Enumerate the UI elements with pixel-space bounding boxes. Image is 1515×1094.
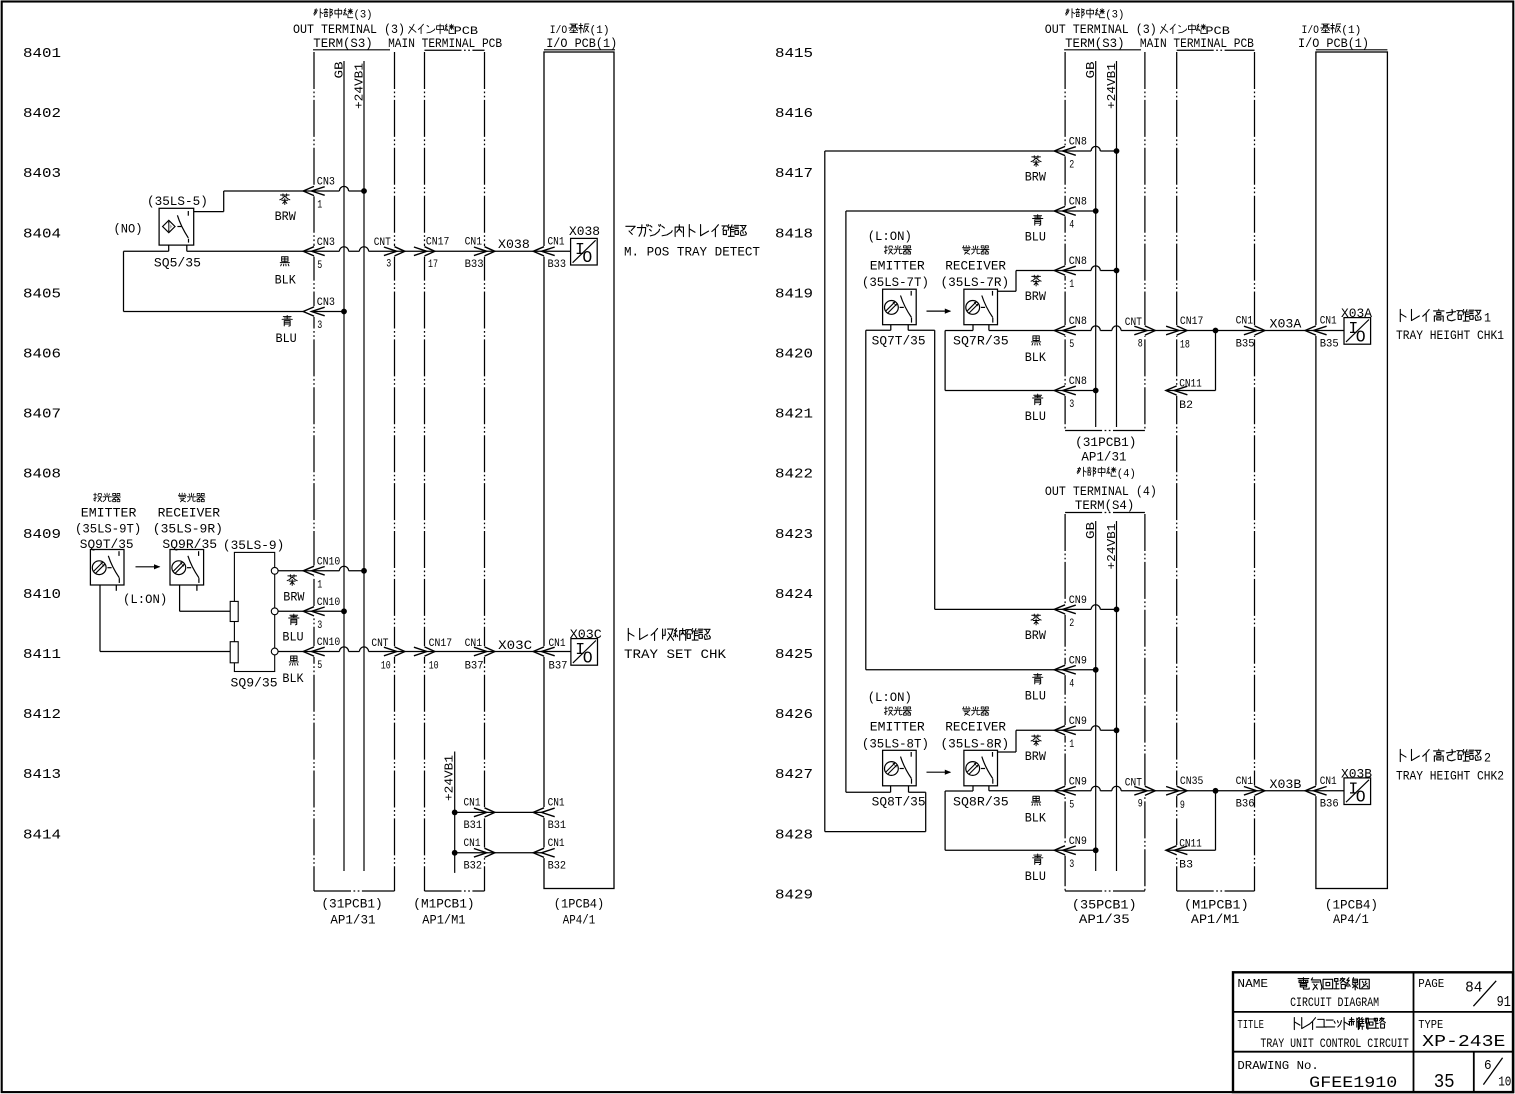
svg-text:EMITTER: EMITTER — [870, 721, 926, 735]
junction CN10-1 to +24VB1 — [361, 568, 367, 574]
svg-text:3: 3 — [386, 259, 391, 271]
terminal block TERM(S3) column boundary left — [313, 49, 390, 51]
svg-text:(35LS-7T): (35LS-7T) — [862, 276, 929, 290]
svg-text:CNT: CNT — [374, 237, 391, 249]
wire CN9-2 brown from SQ7T — [935, 605, 1117, 610]
connector CN1 pin B31 main pcb side — [474, 808, 495, 817]
svg-text:(35LS-7R): (35LS-7R) — [941, 276, 1010, 290]
svg-text:8421: 8421 — [775, 407, 813, 423]
bus GB left — [343, 61, 345, 871]
svg-text:GB: GB — [1084, 62, 1098, 79]
svg-text:8414: 8414 — [23, 827, 61, 843]
svg-text:TITLE: TITLE — [1237, 1019, 1264, 1032]
wire CN10-5 black signal — [278, 647, 571, 652]
connector CN11 pin B3 — [1166, 846, 1188, 855]
svg-text:O: O — [1356, 788, 1366, 807]
svg-text:8412: 8412 — [23, 707, 61, 723]
svg-text:GB: GB — [1084, 522, 1098, 539]
svg-text:BLK: BLK — [1025, 350, 1046, 365]
connector CNT pin 10 — [384, 647, 405, 656]
svg-text:BLU: BLU — [1025, 688, 1046, 703]
bus +24VB1 on main terminal pcb left — [454, 752, 456, 873]
svg-text:CN10: CN10 — [317, 637, 341, 649]
svg-text:84: 84 — [1465, 981, 1482, 997]
wire CN1 B32 link — [455, 852, 544, 854]
svg-text:(35LS-9R): (35LS-9R) — [153, 523, 223, 537]
wire CN10-3 blue — [278, 610, 344, 612]
wire CN9-5 black signal from SQ8R — [989, 786, 1344, 791]
svg-text:X03C: X03C — [498, 638, 532, 653]
wire CN1 B31 link — [455, 811, 544, 813]
svg-text:AP1/35: AP1/35 — [1079, 913, 1130, 927]
svg-text:TRAY HEIGHT CHK2: TRAY HEIGHT CHK2 — [1396, 770, 1504, 784]
svg-text:+24VB1: +24VB1 — [1105, 524, 1119, 570]
svg-text:BLU: BLU — [282, 630, 303, 645]
svg-text:CN8: CN8 — [1069, 197, 1087, 209]
wire CN8-3 blue from SQ7R — [944, 331, 946, 391]
svg-text:EMITTER: EMITTER — [870, 260, 926, 274]
wire SQ9T pin to terminal — [99, 585, 101, 652]
svg-text:CN1: CN1 — [464, 838, 481, 850]
svg-text:(1): (1) — [590, 25, 610, 37]
svg-text:TRAY HEIGHT CHK1: TRAY HEIGHT CHK1 — [1396, 329, 1504, 343]
svg-text:5: 5 — [317, 660, 322, 672]
svg-text:RECEIVER: RECEIVER — [945, 721, 1006, 735]
svg-text:(L:ON): (L:ON) — [868, 230, 912, 244]
svg-text:CN11: CN11 — [1179, 838, 1202, 850]
wire color label BRW brown — [280, 194, 290, 205]
svg-text:(35LS-9): (35LS-9) — [223, 539, 284, 553]
wire SQ7T pins to CN9 — [890, 325, 892, 331]
svg-text:(NO): (NO) — [114, 223, 143, 237]
svg-text:1: 1 — [1484, 311, 1491, 326]
svg-text:AP4/1: AP4/1 — [1333, 913, 1369, 927]
svg-text:2: 2 — [1069, 160, 1074, 172]
annotation M. POS TRAY DETECT — [626, 224, 747, 236]
connector CN10 pin 3 — [303, 607, 325, 616]
svg-text:CN1: CN1 — [548, 237, 565, 249]
svg-text:XP-243E: XP-243E — [1422, 1032, 1505, 1051]
svg-text:1: 1 — [317, 200, 322, 212]
svg-text:8404: 8404 — [23, 226, 61, 242]
svg-text:8402: 8402 — [23, 106, 61, 122]
svg-text:EMITTER: EMITTER — [81, 506, 137, 520]
photo emitter SQ9T/35 (35LS-9T) — [94, 493, 121, 501]
svg-text:TRAY SET CHK: TRAY SET CHK — [624, 648, 726, 662]
svg-text:17: 17 — [428, 259, 438, 271]
svg-text:(3): (3) — [1105, 10, 1124, 22]
svg-text:9: 9 — [1180, 800, 1185, 812]
junction CN8-5 branch to CN11 — [1213, 328, 1219, 334]
svg-text:O: O — [1356, 327, 1366, 346]
svg-text:CN8: CN8 — [1069, 316, 1087, 328]
junction CN3-1 to +24VB1 — [361, 188, 367, 194]
svg-text:(31PCB1): (31PCB1) — [321, 898, 382, 912]
svg-text:8408: 8408 — [23, 467, 61, 483]
connector CN1 pin B36 main pcb side — [1244, 786, 1265, 795]
svg-text:AP1/M1: AP1/M1 — [422, 914, 465, 928]
svg-text:TRAY UNIT CONTROL CIRCUIT: TRAY UNIT CONTROL CIRCUIT — [1260, 1037, 1409, 1051]
title block frame — [1233, 972, 1513, 1092]
wire CN11 B3 branch — [1215, 791, 1217, 851]
svg-text:CN1: CN1 — [464, 798, 481, 810]
svg-text:I/O PCB(1): I/O PCB(1) — [546, 37, 617, 51]
svg-text:5: 5 — [1069, 799, 1074, 811]
svg-text:(35PCB1): (35PCB1) — [1072, 899, 1137, 913]
svg-text:CN1: CN1 — [1236, 776, 1254, 788]
svg-text:CN9: CN9 — [1069, 777, 1087, 789]
photo receiver SQ9R/35 (35LS-9R) — [178, 493, 205, 502]
svg-text:8423: 8423 — [775, 527, 813, 543]
svg-text:(35LS-9T): (35LS-9T) — [75, 523, 141, 537]
junction CN9-3 to GB — [1093, 847, 1099, 853]
svg-text:SQ5/35: SQ5/35 — [154, 257, 201, 271]
wire CN8-1 brown to SQ7R — [1015, 271, 1017, 292]
label OUT TERMINAL (4) header — [1077, 467, 1116, 477]
svg-text:SQ7T/35: SQ7T/35 — [872, 335, 926, 349]
svg-text:8426: 8426 — [775, 707, 813, 723]
connector CN1 pin B32 main pcb side — [474, 848, 495, 857]
svg-text:8406: 8406 — [23, 347, 61, 363]
svg-text:SQ8T/35: SQ8T/35 — [872, 796, 926, 810]
svg-text:6: 6 — [1484, 1059, 1492, 1074]
connector CN1 pin B35 I/O pcb side — [1305, 326, 1327, 335]
svg-text:CNT: CNT — [371, 638, 388, 650]
svg-text:8429: 8429 — [775, 887, 813, 903]
svg-text:CN17: CN17 — [426, 237, 450, 249]
connector CNT pin 9 — [1134, 786, 1155, 795]
connector CN3 pin 5 — [303, 247, 325, 256]
connector gaps right — [1064, 146, 1067, 157]
connector CN3 pin 3 — [303, 307, 325, 316]
I/O PCB(1) board box right — [1316, 49, 1388, 51]
svg-text:8407: 8407 — [23, 407, 61, 423]
terminal circles on 35LS-9 — [271, 567, 278, 574]
light beam arrow SQ9T to SQ9R — [136, 566, 160, 568]
svg-text:+24VB1: +24VB1 — [1105, 63, 1119, 109]
svg-text:BLK: BLK — [282, 671, 303, 686]
svg-text:O: O — [583, 648, 593, 667]
svg-text:BLU: BLU — [276, 331, 297, 346]
svg-text:BRW: BRW — [1025, 289, 1046, 304]
svg-text:8417: 8417 — [775, 166, 813, 182]
svg-text:3: 3 — [317, 320, 322, 332]
svg-text:BRW: BRW — [275, 209, 296, 224]
svg-text:CN10: CN10 — [317, 557, 341, 569]
svg-text:OUT TERMINAL (4): OUT TERMINAL (4) — [1045, 485, 1157, 499]
photo receiver SQ7R/35 (35LS-7R) — [962, 245, 989, 254]
svg-text:1: 1 — [1069, 279, 1074, 291]
svg-text:X03A: X03A — [1270, 317, 1302, 332]
svg-text:X038: X038 — [498, 237, 530, 252]
light beam arrow SQ7T to SQ7R — [927, 310, 951, 312]
svg-text:CN8: CN8 — [1069, 137, 1087, 149]
junction CN8-1 to +24VB1 — [1114, 268, 1120, 274]
svg-text:CN3: CN3 — [317, 237, 335, 249]
svg-text:2: 2 — [1069, 618, 1074, 630]
junction +24VB1 to CN1 B31 — [452, 810, 458, 816]
svg-text:CN1: CN1 — [465, 638, 483, 650]
svg-text:8419: 8419 — [775, 286, 813, 302]
connector CN9 pin 1 — [1054, 726, 1076, 735]
svg-text:TERM(S3): TERM(S3) — [313, 37, 372, 51]
label OUT TERMINAL (3) header right — [1066, 9, 1105, 19]
junction CN3-3 to GB — [341, 309, 347, 315]
svg-text:4: 4 — [1069, 220, 1074, 232]
svg-text:8: 8 — [1138, 338, 1143, 350]
connector CN11 pin B2 — [1166, 386, 1188, 395]
svg-text:CN1: CN1 — [1236, 316, 1254, 328]
svg-text:X03B: X03B — [1270, 777, 1302, 792]
svg-text:8410: 8410 — [23, 587, 61, 603]
svg-text:8415: 8415 — [775, 46, 813, 62]
svg-text:CN11: CN11 — [1179, 379, 1202, 391]
svg-text:8418: 8418 — [775, 226, 813, 242]
bus +24VB1 left — [363, 61, 365, 871]
connector CN8 pin 4 — [1054, 206, 1076, 215]
svg-text:(M1PCB1): (M1PCB1) — [1184, 899, 1249, 913]
svg-text:B32: B32 — [464, 860, 483, 872]
svg-text:AP1/31: AP1/31 — [1081, 450, 1126, 464]
connector CN8 pin 5 — [1054, 326, 1076, 335]
connector CN1 pin B37 I/O pcb side — [533, 647, 555, 656]
label MAIN TERMINAL PCB header right — [1160, 24, 1206, 34]
svg-text:4: 4 — [1069, 678, 1074, 690]
annotation TRAY HEIGHT CHK1 — [1400, 309, 1481, 321]
connector CN10 pin 1 — [303, 566, 325, 575]
svg-text:B31: B31 — [464, 820, 483, 832]
svg-text:GFEE1910: GFEE1910 — [1309, 1074, 1397, 1092]
svg-text:MAIN TERMINAL PCB: MAIN TERMINAL PCB — [1140, 37, 1254, 51]
wire SQ7R pins — [972, 325, 974, 331]
svg-text:8416: 8416 — [775, 106, 813, 122]
wire SQ5 pin to CN3-1 — [194, 211, 224, 213]
svg-text:OUT TERMINAL (3): OUT TERMINAL (3) — [293, 23, 405, 37]
svg-text:PAGE: PAGE — [1418, 978, 1444, 991]
svg-text:(4): (4) — [1117, 468, 1136, 480]
svg-text:5: 5 — [317, 260, 322, 272]
junction CN9-1 to +24VB1 — [1114, 727, 1120, 733]
svg-text:91: 91 — [1497, 995, 1511, 1011]
svg-text:B33: B33 — [465, 259, 484, 271]
svg-text:8409: 8409 — [23, 527, 61, 543]
svg-text:NAME: NAME — [1237, 978, 1268, 991]
junction CN8-4 to GB — [1093, 208, 1099, 214]
svg-text:3: 3 — [317, 620, 322, 632]
terminal block TERM(S3) column boundary right — [1064, 49, 1141, 51]
wire CN9-1 brown to SQ8R — [1015, 730, 1017, 752]
svg-text:CN1: CN1 — [548, 838, 565, 850]
svg-text:B33: B33 — [548, 259, 567, 271]
svg-text:B3: B3 — [1179, 860, 1193, 872]
svg-text:BRW: BRW — [1025, 628, 1046, 643]
svg-text:BLK: BLK — [1025, 810, 1046, 825]
svg-text:DRAWING No.: DRAWING No. — [1237, 1059, 1318, 1073]
svg-text:9: 9 — [1138, 799, 1143, 811]
svg-text:10: 10 — [429, 661, 439, 673]
svg-text:8422: 8422 — [775, 467, 813, 483]
svg-text:8401: 8401 — [23, 46, 61, 62]
svg-text:(35LS-5): (35LS-5) — [147, 195, 208, 209]
wire CN9-4 blue from SQ7T — [866, 669, 1096, 671]
svg-text:I/O PCB(1): I/O PCB(1) — [1298, 37, 1369, 51]
svg-text:BRW: BRW — [1025, 749, 1046, 764]
connector CN8 pin 2 — [1054, 146, 1076, 155]
wire CN11 B2 branch — [1215, 331, 1217, 391]
svg-text:CN10: CN10 — [317, 597, 341, 609]
svg-text:8420: 8420 — [775, 347, 813, 363]
junction CN9-2 to +24VB1 — [1114, 607, 1120, 613]
svg-text:RECEIVER: RECEIVER — [945, 260, 1006, 274]
svg-text:TYPE: TYPE — [1418, 1019, 1443, 1032]
svg-text:SQ8R/35: SQ8R/35 — [953, 796, 1009, 810]
svg-text:(3): (3) — [354, 10, 373, 22]
svg-text:B32: B32 — [548, 860, 567, 872]
svg-text:SQ7R/35: SQ7R/35 — [953, 335, 1009, 349]
svg-text:(L:ON): (L:ON) — [123, 593, 167, 607]
photo receiver SQ8R/35 (35LS-8R) — [962, 707, 989, 716]
connector CN1 pin B32 I/O pcb side — [533, 848, 555, 857]
connector CN1 pin B33 I/O pcb side — [533, 247, 555, 256]
annotation TRAY HEIGHT CHK2 — [1400, 749, 1481, 761]
wire CN8-4 blue from SQ8T — [845, 211, 847, 792]
label MAIN TERMINAL PCB header left — [409, 24, 455, 34]
svg-text:CNT: CNT — [1125, 317, 1142, 329]
connector CN17 pin 10 — [414, 647, 435, 656]
svg-text:3: 3 — [1069, 399, 1074, 411]
svg-text:8428: 8428 — [775, 827, 813, 843]
svg-text:BLU: BLU — [1025, 869, 1046, 884]
svg-text:(1PCB4): (1PCB4) — [554, 898, 604, 912]
connector CN1 pin B31 I/O pcb side — [533, 808, 555, 817]
wire SQ5 to CN3-3 loop — [123, 251, 125, 311]
svg-text:8411: 8411 — [23, 647, 61, 663]
svg-text:CN3: CN3 — [317, 297, 335, 309]
svg-text:CN17: CN17 — [1180, 316, 1204, 328]
wire SQ8R pins — [972, 786, 974, 791]
svg-text:B36: B36 — [1320, 799, 1339, 811]
junction CN8-3 to GB — [1093, 388, 1099, 394]
svg-text:O: O — [582, 248, 592, 267]
connector CNT pin 3 — [384, 247, 405, 256]
svg-text:CN1: CN1 — [549, 638, 566, 650]
svg-text:CN1: CN1 — [548, 798, 565, 810]
svg-text:8413: 8413 — [23, 767, 61, 783]
svg-text:(M1PCB1): (M1PCB1) — [413, 898, 474, 912]
bus +24VB1 right lower — [1116, 521, 1118, 871]
connector CNT pin 8 — [1134, 326, 1155, 335]
wire SQ9R pin to terminal — [179, 585, 181, 611]
svg-text:CN9: CN9 — [1069, 716, 1087, 728]
connector CN9 pin 3 — [1054, 846, 1076, 855]
wire SQ8T pins to CN8 — [890, 786, 892, 792]
svg-text:CN9: CN9 — [1069, 656, 1087, 668]
main terminal PCB column boundary right — [1177, 49, 1255, 51]
svg-text:B35: B35 — [1236, 338, 1255, 350]
svg-text:CN17: CN17 — [429, 638, 453, 650]
svg-text:MAIN TERMINAL PCB: MAIN TERMINAL PCB — [388, 37, 502, 51]
svg-text:1: 1 — [317, 579, 322, 591]
svg-text:RECEIVER: RECEIVER — [158, 506, 221, 520]
svg-text:I/O: I/O — [550, 25, 568, 37]
annotation TRAY SET CHK — [628, 628, 710, 640]
svg-text:BRW: BRW — [283, 589, 304, 604]
connector CN9 pin 2 — [1054, 605, 1076, 614]
svg-text:1: 1 — [1069, 739, 1074, 751]
svg-text:TERM(S4): TERM(S4) — [1075, 499, 1134, 513]
svg-text:+24VB1: +24VB1 — [353, 63, 367, 109]
connector CN3 pin 1 — [303, 186, 325, 195]
svg-text:2: 2 — [1484, 751, 1491, 766]
svg-text:TERM(S3): TERM(S3) — [1065, 37, 1124, 51]
connector CN1 pin B36 I/O pcb side — [1305, 786, 1327, 795]
wire color label BLK black — [280, 257, 289, 266]
svg-text:8425: 8425 — [775, 647, 813, 663]
svg-text:3: 3 — [1069, 859, 1074, 871]
connector CN35 pin 9 — [1166, 786, 1187, 795]
svg-text:B37: B37 — [465, 661, 484, 673]
svg-text:CNT: CNT — [1125, 777, 1142, 789]
I/O PCB(1) board box left — [544, 49, 615, 51]
svg-text:B31: B31 — [548, 820, 567, 832]
wire color label BLU blue — [282, 315, 292, 326]
junction CN9-4 to GB — [1093, 667, 1099, 673]
svg-text:M. POS TRAY DETECT: M. POS TRAY DETECT — [624, 246, 760, 260]
connector CN17 pin 18 — [1166, 326, 1187, 335]
svg-text:B37: B37 — [549, 661, 568, 673]
connector CN8 pin 3 — [1054, 386, 1076, 395]
svg-text:SQ9/35: SQ9/35 — [231, 676, 278, 690]
svg-text:OUT TERMINAL (3): OUT TERMINAL (3) — [1045, 23, 1157, 37]
connector CN1 pin B35 main pcb side — [1244, 326, 1265, 335]
terminal block TERM(S4) column boundary — [1065, 512, 1145, 514]
connector CN9 pin 5 — [1054, 786, 1076, 795]
svg-text:10: 10 — [381, 661, 391, 673]
junction CN9-5 branch to CN11 — [1213, 788, 1219, 794]
svg-text:(1): (1) — [1341, 25, 1361, 37]
svg-text:AP1/M1: AP1/M1 — [1191, 913, 1240, 927]
svg-text:I/O: I/O — [1302, 25, 1320, 37]
svg-text:CN1: CN1 — [1320, 776, 1337, 788]
svg-text:AP4/1: AP4/1 — [563, 914, 595, 928]
svg-text:(35LS-8T): (35LS-8T) — [862, 737, 929, 751]
svg-text:GB: GB — [333, 62, 347, 79]
connector CN10 pin 5 — [303, 647, 325, 656]
svg-text:8405: 8405 — [23, 286, 61, 302]
wire CN8-2 brown from SQ8T — [824, 151, 826, 832]
bus GB right lower — [1095, 521, 1097, 871]
svg-text:BLK: BLK — [275, 273, 296, 288]
svg-text:BLU: BLU — [1025, 409, 1046, 424]
svg-text:B35: B35 — [1320, 338, 1339, 350]
svg-text:CN1: CN1 — [1320, 316, 1337, 328]
junction +24VB1 to CN1 B32 — [452, 850, 458, 856]
svg-text:AP1/31: AP1/31 — [330, 914, 375, 928]
connector CN8 pin 1 — [1054, 266, 1076, 275]
wire CN10-1 brown — [278, 566, 364, 571]
svg-text:X038: X038 — [569, 224, 600, 239]
connector CN1 pin B33 main pcb side — [474, 247, 495, 256]
connector CN17 pin 17 — [414, 247, 435, 256]
svg-text:18: 18 — [1180, 340, 1190, 352]
wire CN9-3 blue from SQ8R — [944, 791, 946, 850]
wire SQ5 pins to CN3-5 — [168, 245, 170, 251]
svg-text:CN1: CN1 — [465, 237, 483, 249]
svg-text:CN8: CN8 — [1069, 376, 1087, 388]
svg-text:8427: 8427 — [775, 767, 813, 783]
svg-text:B2: B2 — [1179, 400, 1193, 412]
svg-text:CN9: CN9 — [1069, 836, 1087, 848]
